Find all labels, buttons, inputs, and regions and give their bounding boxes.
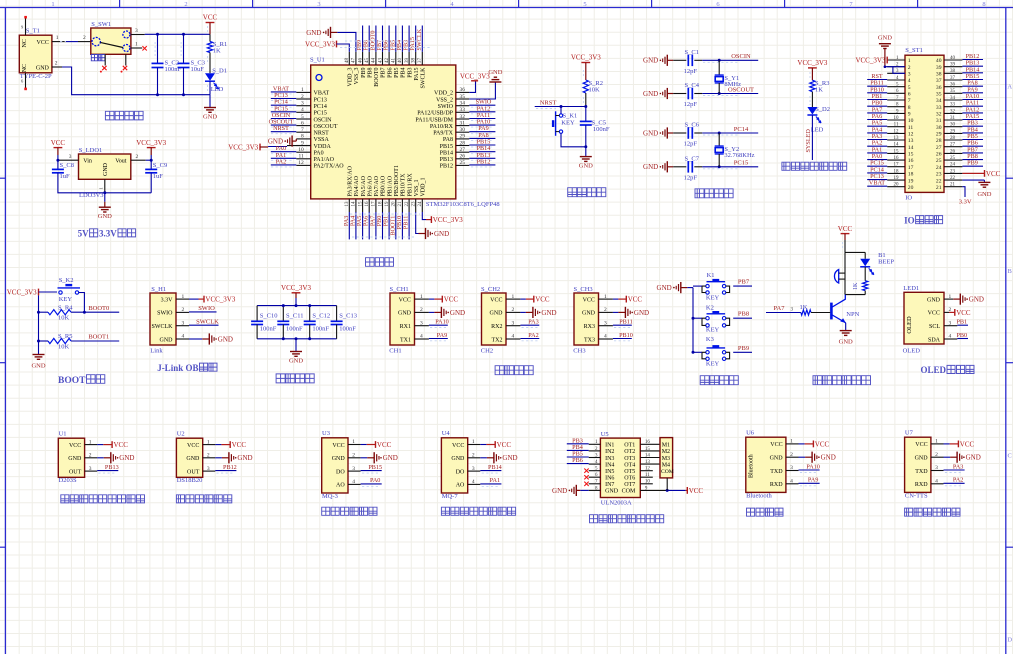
svg-text:OT1: OT1 (624, 443, 635, 449)
svg-text:PB9: PB9 (738, 345, 749, 352)
svg-text:IN3: IN3 (605, 456, 614, 462)
svg-text:S_R5: S_R5 (58, 333, 72, 340)
svg-text:PB15: PB15 (368, 464, 382, 471)
svg-text:VCC: VCC (497, 441, 512, 449)
svg-text:35: 35 (936, 92, 942, 98)
svg-text:7: 7 (301, 127, 304, 133)
svg-text:GND: GND (502, 454, 517, 462)
svg-text:28: 28 (950, 136, 956, 141)
svg-text:12pF: 12pF (684, 68, 698, 75)
svg-text:16: 16 (908, 158, 914, 164)
svg-text:S_C6: S_C6 (685, 122, 700, 129)
svg-text:VCC_3V3: VCC_3V3 (7, 288, 37, 296)
svg-text:PC15: PC15 (314, 111, 327, 117)
svg-text:5: 5 (301, 114, 304, 120)
svg-text:S_C8: S_C8 (60, 162, 74, 169)
svg-text:GND: GND (821, 454, 836, 462)
svg-text:29: 29 (950, 129, 956, 134)
svg-text:OT2: OT2 (624, 449, 635, 455)
svg-text:12: 12 (894, 129, 900, 134)
svg-text:S_SW1: S_SW1 (91, 21, 111, 28)
svg-text:PB1: PB1 (956, 319, 967, 326)
svg-text:32: 32 (460, 114, 466, 120)
svg-text:3: 3 (935, 465, 938, 471)
svg-text:20: 20 (392, 201, 397, 207)
svg-text:VCC: VCC (187, 443, 199, 449)
svg-text:PB7: PB7 (381, 68, 387, 78)
svg-text:PA2: PA2 (528, 332, 538, 339)
svg-text:29: 29 (460, 134, 466, 140)
svg-text:GND: GND (237, 454, 252, 462)
svg-text:VDD_3: VDD_3 (348, 68, 354, 87)
svg-text:40: 40 (398, 58, 403, 64)
svg-text:35: 35 (950, 89, 956, 94)
svg-text:12pF: 12pF (684, 141, 698, 148)
svg-text:SDA: SDA (928, 337, 941, 343)
svg-text:OT7: OT7 (624, 482, 635, 488)
svg-text:PB14: PB14 (488, 464, 502, 471)
svg-text:1: 1 (207, 439, 210, 445)
svg-text:TX2: TX2 (492, 337, 503, 343)
svg-text:OUT: OUT (187, 469, 200, 475)
svg-text:VCC: VCC (986, 170, 1001, 178)
svg-text:15: 15 (908, 152, 914, 158)
svg-text:RXD: RXD (770, 482, 783, 488)
svg-text:4: 4 (935, 479, 938, 485)
svg-text:PA1/AO: PA1/AO (314, 157, 335, 163)
svg-text:U7: U7 (905, 429, 914, 436)
svg-text:VCC: VCC (114, 441, 129, 449)
svg-text:VCC: VCC (51, 139, 66, 147)
svg-text:5: 5 (908, 85, 911, 91)
svg-text:VSS_2: VSS_2 (436, 97, 453, 103)
svg-text:46: 46 (358, 57, 363, 63)
svg-text:TX1: TX1 (400, 337, 411, 343)
svg-text:GND: GND (268, 138, 283, 146)
svg-text:30: 30 (950, 123, 956, 128)
svg-text:PC13: PC13 (314, 97, 327, 103)
svg-text:S_C1: S_C1 (685, 49, 699, 56)
svg-text:GND: GND (383, 454, 398, 462)
svg-text:SWIO: SWIO (157, 311, 173, 317)
svg-text:VCC: VCC (915, 442, 927, 448)
svg-text:4: 4 (604, 334, 607, 340)
svg-text:1: 1 (182, 294, 185, 300)
svg-text:32.768KHz: 32.768KHz (724, 152, 754, 159)
svg-text:10: 10 (298, 147, 304, 153)
svg-text:OUT: OUT (69, 469, 82, 475)
svg-text:PB0/AO: PB0/AO (381, 175, 387, 196)
svg-text:VSS_3: VSS_3 (354, 68, 360, 85)
svg-text:PA0: PA0 (314, 151, 324, 157)
svg-text:1K: 1K (853, 282, 859, 290)
svg-text:PB11/RX: PB11/RX (407, 173, 413, 197)
svg-text:D: D (1007, 636, 1012, 643)
svg-text:S_C10: S_C10 (260, 312, 278, 319)
svg-text:OLED: OLED (903, 348, 921, 355)
svg-text:1: 1 (98, 187, 103, 189)
svg-text:1: 1 (301, 87, 304, 93)
svg-text:6: 6 (301, 120, 304, 126)
svg-text:GND: GND (915, 456, 929, 462)
svg-text:OLED: OLED (906, 316, 913, 334)
svg-text:K2: K2 (706, 304, 714, 311)
svg-text:STM32F103C8T6_LQFP48: STM32F103C8T6_LQFP48 (426, 201, 500, 208)
svg-text:10K: 10K (589, 87, 601, 94)
svg-text:PB11: PB11 (619, 319, 633, 326)
svg-text:GND: GND (218, 335, 233, 343)
svg-text:30: 30 (460, 127, 466, 133)
svg-text:4: 4 (301, 107, 304, 113)
svg-text:VCC: VCC (583, 297, 595, 303)
svg-text:VDDA: VDDA (314, 144, 332, 150)
svg-text:TXD: TXD (770, 469, 783, 475)
svg-text:25: 25 (950, 156, 956, 161)
svg-text:31: 31 (950, 116, 956, 121)
svg-text:100nF: 100nF (286, 325, 303, 332)
svg-text:17: 17 (908, 165, 914, 171)
svg-text:VCC_3V3: VCC_3V3 (205, 296, 235, 304)
svg-text:5V: 5V (78, 229, 90, 239)
svg-text:GND: GND (582, 311, 596, 317)
svg-text:VCC_3V3: VCC_3V3 (281, 284, 311, 292)
svg-text:PB7: PB7 (738, 279, 750, 286)
svg-text:2: 2 (420, 307, 423, 313)
svg-text:PB0: PB0 (956, 332, 967, 339)
svg-text:4: 4 (949, 334, 952, 340)
svg-text:1K: 1K (800, 304, 808, 311)
svg-text:SWIO: SWIO (438, 104, 454, 110)
svg-text:GND: GND (203, 114, 217, 121)
svg-text:SWCLK: SWCLK (196, 319, 219, 326)
svg-text:12pF: 12pF (684, 174, 698, 181)
svg-text:VCC_3V3: VCC_3V3 (305, 40, 335, 48)
svg-text:S_ST1: S_ST1 (905, 47, 923, 54)
svg-text:PA2/TX/AO: PA2/TX/AO (314, 164, 345, 170)
svg-text:M3: M3 (662, 456, 670, 462)
svg-text:GND: GND (552, 487, 567, 495)
svg-text:GND: GND (969, 296, 984, 304)
svg-text:TYPE-C-2P: TYPE-C-2P (20, 73, 52, 80)
svg-text:PA7: PA7 (774, 305, 786, 312)
svg-text:VBAT: VBAT (314, 91, 330, 97)
svg-text:40: 40 (950, 56, 956, 61)
svg-text:2: 2 (352, 453, 355, 459)
svg-text:S_C4: S_C4 (685, 82, 700, 89)
svg-text:25: 25 (936, 158, 942, 164)
svg-text:PB6: PB6 (572, 457, 583, 464)
svg-text:1K: 1K (213, 47, 221, 54)
svg-text:KEY: KEY (59, 296, 73, 303)
svg-text:10K: 10K (58, 315, 70, 322)
svg-text:Link: Link (150, 347, 163, 354)
svg-text:PA11/USB/DM: PA11/USB/DM (415, 117, 453, 123)
svg-text:21: 21 (950, 183, 956, 188)
svg-text:SWCLK: SWCLK (152, 324, 174, 330)
svg-text:2: 2 (472, 453, 475, 459)
svg-text:100nF: 100nF (339, 325, 356, 332)
svg-text:GND: GND (103, 162, 109, 176)
svg-text:14: 14 (894, 143, 900, 148)
svg-text:GND: GND (31, 363, 45, 370)
svg-text:VDD_2: VDD_2 (434, 91, 453, 97)
svg-text:GND: GND (927, 297, 941, 303)
svg-text:10: 10 (908, 118, 914, 124)
svg-text:OT3: OT3 (624, 456, 635, 462)
svg-text:PA15: PA15 (414, 68, 420, 81)
svg-text:COM: COM (661, 469, 674, 475)
svg-text:Vout: Vout (115, 158, 127, 164)
svg-text:U6: U6 (746, 429, 755, 436)
svg-text:11: 11 (299, 154, 305, 160)
svg-text:DS18B20: DS18B20 (177, 477, 203, 484)
svg-text:27: 27 (936, 145, 942, 151)
svg-text:PA4/AO: PA4/AO (354, 175, 360, 196)
svg-text:3: 3 (317, 1, 320, 8)
svg-text:17: 17 (372, 201, 377, 207)
svg-text:4: 4 (790, 479, 793, 485)
svg-text:1uF: 1uF (60, 173, 71, 180)
svg-text:7: 7 (908, 98, 911, 104)
svg-text:S_H1: S_H1 (151, 286, 166, 293)
svg-text:S_T1: S_T1 (26, 28, 40, 35)
svg-text:PB12: PB12 (477, 158, 491, 165)
svg-text:9: 9 (301, 140, 304, 146)
svg-text:GND: GND (977, 191, 991, 198)
svg-text:26: 26 (460, 154, 466, 160)
svg-text:VCC: VCC (452, 443, 464, 449)
svg-text:VSS_1: VSS_1 (414, 179, 420, 196)
svg-text:KEY: KEY (706, 361, 720, 368)
svg-text:GND: GND (160, 337, 174, 343)
svg-text:VCC: VCC (960, 440, 975, 448)
svg-text:36: 36 (460, 87, 466, 93)
svg-text:PC14: PC14 (314, 104, 327, 110)
svg-text:GND: GND (643, 90, 658, 98)
svg-text:VCC_3V3: VCC_3V3 (433, 216, 463, 224)
svg-text:22: 22 (936, 178, 942, 184)
svg-text:12pF: 12pF (684, 101, 698, 108)
svg-text:M4: M4 (662, 462, 670, 468)
svg-text:GND: GND (643, 163, 658, 171)
svg-text:GND: GND (541, 309, 556, 317)
svg-text:1uF: 1uF (153, 173, 164, 180)
svg-text:COM: COM (622, 489, 636, 495)
svg-text:GND: GND (643, 57, 658, 65)
svg-text:19: 19 (894, 176, 900, 181)
svg-text:100nF: 100nF (593, 126, 610, 133)
svg-text:S_U1: S_U1 (310, 57, 325, 64)
svg-text:PA3/RX/AO: PA3/RX/AO (348, 165, 354, 196)
svg-text:12: 12 (298, 160, 304, 166)
svg-text:38: 38 (936, 72, 942, 78)
svg-text:VCC: VCC (37, 40, 49, 46)
svg-text:28: 28 (460, 140, 466, 146)
svg-text:3: 3 (182, 320, 185, 326)
svg-text:RX2: RX2 (491, 324, 502, 330)
svg-text:CH1: CH1 (389, 347, 401, 354)
svg-text:U4: U4 (442, 430, 451, 437)
svg-text:GND: GND (36, 65, 50, 71)
svg-text:VCC_3V3: VCC_3V3 (228, 143, 258, 151)
svg-text:S_CH1: S_CH1 (390, 286, 409, 293)
svg-text:PA5/AO: PA5/AO (361, 175, 367, 196)
svg-text:PA7/AO: PA7/AO (374, 175, 380, 196)
svg-text:KEY: KEY (561, 120, 575, 127)
svg-text:43: 43 (378, 58, 383, 64)
svg-text:S_C7: S_C7 (685, 155, 700, 162)
svg-text:33: 33 (460, 107, 466, 113)
svg-text:GND: GND (490, 311, 504, 317)
svg-text:PC15: PC15 (734, 160, 748, 167)
svg-text:PB2/BOOT1: PB2/BOOT1 (394, 165, 400, 196)
svg-text:36: 36 (950, 83, 956, 88)
svg-text:KEY: KEY (706, 327, 720, 334)
svg-text:6: 6 (908, 92, 911, 98)
svg-text:GND: GND (398, 311, 412, 317)
svg-text:MQ-3: MQ-3 (322, 493, 338, 500)
svg-text:NPN: NPN (846, 311, 859, 318)
svg-text:PB3: PB3 (407, 67, 413, 77)
svg-text:B: B (1008, 268, 1013, 275)
svg-text:42: 42 (385, 58, 390, 64)
svg-text:47: 47 (352, 58, 357, 64)
svg-text:PA9: PA9 (437, 332, 447, 339)
svg-text:SWIO: SWIO (198, 305, 215, 312)
svg-text:PB10/TX: PB10/TX (401, 173, 407, 197)
svg-text:3: 3 (604, 320, 607, 326)
svg-text:39: 39 (950, 63, 956, 68)
svg-text:OSCOUT: OSCOUT (314, 124, 338, 130)
svg-text:VCC_3V3: VCC_3V3 (797, 59, 827, 67)
svg-text:2: 2 (135, 154, 138, 160)
svg-text:3.3V: 3.3V (959, 199, 972, 206)
svg-text:15: 15 (358, 201, 363, 207)
svg-text:IN6: IN6 (605, 476, 614, 482)
svg-text:VCC_3V3: VCC_3V3 (571, 54, 601, 62)
svg-text:PA8: PA8 (443, 137, 453, 143)
svg-text:4: 4 (512, 334, 515, 340)
svg-text:5: 5 (583, 1, 586, 8)
svg-text:16: 16 (894, 156, 900, 161)
svg-text:2: 2 (83, 35, 86, 41)
svg-text:PB12: PB12 (440, 164, 453, 170)
svg-text:1: 1 (604, 294, 607, 300)
svg-text:1: 1 (908, 58, 911, 64)
svg-text:PB10: PB10 (619, 332, 633, 339)
svg-text:VCC: VCC (689, 487, 704, 495)
svg-text:IN7: IN7 (605, 482, 614, 488)
svg-text:PA6/AO: PA6/AO (367, 175, 373, 196)
svg-text:S_C13: S_C13 (339, 312, 357, 319)
svg-text:100nF: 100nF (260, 325, 277, 332)
svg-text:32: 32 (936, 112, 942, 118)
svg-text:VCC_3V3: VCC_3V3 (460, 72, 490, 80)
svg-text:10K: 10K (58, 343, 70, 350)
svg-text:4: 4 (182, 334, 185, 340)
svg-text:BOOT1: BOOT1 (88, 334, 109, 341)
svg-text:23: 23 (936, 172, 942, 178)
svg-text:OSCIN: OSCIN (314, 117, 333, 123)
svg-text:S_CH2: S_CH2 (481, 286, 500, 293)
svg-text:OT6: OT6 (624, 476, 635, 482)
svg-text:GND: GND (488, 69, 502, 76)
svg-text:PA12/USB/DP: PA12/USB/DP (417, 111, 453, 117)
svg-text:3: 3 (135, 28, 138, 34)
svg-text:25: 25 (460, 160, 466, 166)
svg-text:48: 48 (345, 58, 350, 64)
svg-text:PA0: PA0 (370, 477, 380, 484)
svg-text:AO: AO (336, 483, 345, 489)
svg-text:35: 35 (460, 94, 466, 100)
svg-text:3: 3 (420, 320, 423, 326)
svg-text:27: 27 (460, 147, 466, 153)
svg-text:27: 27 (950, 143, 956, 148)
svg-text:U1: U1 (59, 430, 67, 437)
svg-text:3.3V: 3.3V (161, 297, 174, 303)
svg-text:GND: GND (878, 35, 892, 42)
svg-text:TXD: TXD (915, 469, 928, 475)
svg-text:VDD_1: VDD_1 (421, 178, 427, 197)
svg-text:39: 39 (936, 65, 942, 71)
svg-text:34: 34 (950, 96, 956, 101)
svg-text:VCC_3V3: VCC_3V3 (855, 56, 885, 64)
svg-text:1: 1 (935, 439, 938, 445)
svg-text:23: 23 (950, 169, 956, 174)
svg-text:8: 8 (908, 105, 911, 111)
svg-text:20: 20 (894, 183, 900, 188)
svg-text:IO: IO (905, 195, 912, 202)
svg-text:37: 37 (418, 58, 423, 64)
svg-text:9: 9 (908, 112, 911, 118)
svg-text:S_C9: S_C9 (153, 162, 167, 169)
svg-text:RX3: RX3 (584, 324, 595, 330)
svg-text:24: 24 (936, 165, 942, 171)
svg-text:DO: DO (456, 469, 465, 475)
svg-text:1: 1 (790, 439, 793, 445)
svg-text:100nF: 100nF (312, 325, 329, 332)
svg-text:45: 45 (365, 58, 370, 64)
svg-text:1: 1 (51, 1, 54, 8)
svg-text:22: 22 (405, 201, 410, 207)
svg-text:2: 2 (604, 307, 607, 313)
svg-text:8: 8 (982, 1, 985, 8)
svg-text:PC14: PC14 (734, 126, 749, 133)
svg-text:BOOT: BOOT (58, 376, 86, 386)
svg-text:4: 4 (908, 78, 911, 84)
svg-text:26: 26 (950, 149, 956, 154)
svg-text:22: 22 (950, 176, 956, 181)
svg-text:BOOT0: BOOT0 (88, 305, 109, 312)
svg-text:3: 3 (352, 466, 355, 472)
svg-text:14: 14 (352, 201, 357, 207)
svg-text:C: C (1008, 452, 1012, 459)
svg-text:KEY: KEY (706, 294, 720, 301)
svg-text:1: 1 (472, 439, 475, 445)
svg-text:J-Link OB: J-Link OB (157, 363, 198, 373)
svg-text:10: 10 (894, 116, 900, 121)
svg-text:2: 2 (512, 307, 515, 313)
svg-text:1K: 1K (815, 87, 823, 94)
svg-text:2: 2 (790, 452, 793, 458)
svg-text:GND: GND (839, 339, 853, 346)
svg-text:A: A (1007, 83, 1012, 90)
svg-text:24: 24 (950, 163, 956, 168)
svg-text:23: 23 (412, 201, 417, 207)
svg-text:NRST: NRST (540, 99, 557, 106)
svg-text:18: 18 (894, 169, 900, 174)
svg-text:18: 18 (378, 201, 383, 207)
